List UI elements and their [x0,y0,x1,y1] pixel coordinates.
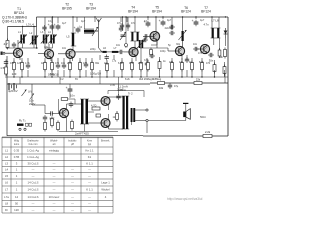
resistor R26 [57,121,60,132]
label R6 value [50,72,55,76]
wire rod feed [84,17,86,29]
svg-text:L7 L8: L7 L8 [211,19,219,23]
transistor T2 [44,49,53,58]
svg-text:4µ7: 4µ7 [62,22,67,25]
antenna mast [96,18,101,25]
resistor R3 [13,61,16,72]
svg-text:—: — [32,168,35,172]
series capacitor C10 [118,50,124,54]
svg-text:+: + [54,23,56,27]
label L1 L2 [26,23,34,27]
wire trimmer column a [122,17,124,31]
wire T3 collector [72,46,74,50]
wire antenna to choke line [99,48,102,52]
wire top supply rail [37,16,229,18]
svg-text:470: 470 [206,62,211,65]
label 100u second [48,73,59,77]
capacitor C11 shunt [105,55,109,61]
wire T9 collector [108,97,110,98]
transistor T10 output [101,119,110,128]
svg-text:—: — [88,195,91,199]
wire AF supply line [108,90,144,92]
resistor R14 [158,60,161,71]
label R2 value [0,66,4,70]
svg-text:NTC: NTC [50,118,55,121]
wire AF base line [55,113,60,115]
svg-text:1 CuL-Ag: 1 CuL-Ag [27,149,39,153]
svg-text:BF195: BF195 [62,7,72,11]
svg-text:4.7Ω: 4.7Ω [91,105,96,108]
terminal node C [146,119,148,121]
svg-text:47n: 47n [10,62,15,65]
capacitor C1 [4,60,8,66]
svg-text:0.55: 0.55 [14,155,20,159]
resistor R34 bias [61,98,67,101]
wire to speaker [148,120,186,122]
wire Tr5 sec top [135,109,146,111]
label R value 39k [139,77,162,81]
svg-text:L7: L7 [5,188,9,192]
svg-text:Tr 2: Tr 2 [128,92,133,96]
wire vertical node A [36,27,38,49]
svg-text:—: — [71,195,74,199]
svg-text:art: art [53,143,56,146]
svg-text:—: — [71,174,74,178]
capacitor C36 feed [168,83,172,89]
svg-text:—: — [88,168,91,172]
wire T3 emitter [72,58,74,61]
svg-text:turns: turns [14,143,20,146]
wire base coupling T2-T3 [58,53,66,55]
electrolytic C15 [144,20,151,27]
wire stage1 bias line [7,47,38,49]
svg-text:6.8k: 6.8k [118,62,123,65]
wire antenna down [98,25,100,48]
svg-text:—: — [53,188,56,192]
capacitor C19 [169,31,175,35]
wire T8 collector [66,104,68,110]
svg-text:—: — [88,181,91,185]
label R23 value [196,78,201,82]
wire L2 top [33,27,35,36]
svg-text:Rₐ Tₐ: Rₐ Tₐ [19,118,26,122]
svg-text:K1: K1 [88,155,92,159]
svg-text:—: — [88,208,91,212]
wire T2 emitter [50,58,52,61]
wire T6 emitter [181,55,183,60]
capacitor C24 bypass [119,26,123,32]
svg-text:+: + [192,19,194,23]
svg-text:BF124: BF124 [201,10,211,14]
wire detector to AGC [224,74,226,84]
svg-text:470: 470 [129,62,134,65]
wire osc emitter path [156,40,158,45]
input jack J1 [1,52,14,55]
electrolytic C6 [74,26,81,33]
label transistor T7 type [201,6,211,14]
diode D1 [224,28,228,38]
wire feedback link [167,48,169,51]
wire L3 bottom [44,44,46,50]
resistor R9 [91,61,94,72]
label L5 [67,35,70,39]
svg-text:BF124: BF124 [181,10,191,14]
label electrolytic 100u [90,72,101,76]
wire stage2 link [45,47,53,49]
wire Tr3 sec down [219,38,221,50]
svg-text:8.2k: 8.2k [199,61,204,64]
svg-text:47µ: 47µ [174,85,179,88]
ferrite rod coil [84,29,94,33]
wire T2 collector [48,44,50,49]
resistor R21 [223,65,226,76]
label 4x100 [165,27,172,30]
wire emitters join [116,111,118,113]
svg-text:—: — [53,168,56,172]
svg-text:8.2k: 8.2k [125,78,130,81]
wire outputs to transformer [109,96,124,98]
svg-text:L6: L6 [5,181,9,185]
svg-text:Bemerk.: Bemerk. [101,140,110,143]
capacitor C12 [120,23,124,29]
label Tr2 [128,92,133,96]
resistor R7 [69,61,72,72]
terminal node B [146,109,148,111]
resistor R20 [213,63,216,74]
wire AF supply left drop [107,91,109,95]
svg-text:Lg: Lg [79,25,82,29]
wire AF input [32,104,45,106]
resistor R17 [191,61,194,72]
wire T4 collector [134,41,136,48]
svg-text:10n: 10n [70,94,75,98]
capacitor C33 bias [12,42,16,48]
wire T9 emitter [108,105,110,111]
svg-text:30 CuLS: 30 CuLS [28,162,39,166]
volume potentiometer P1 [22,90,35,100]
coil L9 osc [137,40,145,49]
svg-text:3k4 26Meg 0.5Meg: 3k4 26Meg 0.5Meg [139,77,162,81]
wire volume feed [31,84,33,105]
wire bias annotation line [118,84,120,95]
svg-text:50Ω: 50Ω [200,115,206,119]
svg-text:einlagig: einlagig [49,149,59,153]
wire AF coupling vertical [44,105,46,114]
trimmer coil L6 arrow [179,30,187,41]
svg-text:L5: L5 [5,174,9,178]
capacitor C34 box [96,114,101,117]
transistor T5 oscillator [150,32,160,42]
transistor T8 driver [59,108,68,117]
svg-text:L3 L4: L3 L4 [26,23,34,27]
resistor R22 series [158,82,165,85]
svg-text:µH: µH [71,143,74,146]
svg-text:1.5: 1.5 [0,66,4,70]
label 10n af [70,94,75,98]
capacitor C21 30n [208,53,214,57]
label R18 value [218,55,223,59]
svg-text:+: + [48,23,50,27]
wire osc emitter left [151,44,157,46]
resistor R18 [224,48,227,59]
wire T5 collector [155,17,157,32]
coil L1 tuned [18,35,26,44]
junction dot bias a [6,47,7,48]
resistor R19 [201,61,204,72]
wire test point [125,17,127,44]
transistor T1 [13,48,22,57]
resistor R31 AF [44,121,47,132]
svg-text:100µ/10: 100µ/10 [48,73,59,77]
svg-text:30p: 30p [176,43,181,46]
svg-text:—: — [71,188,74,192]
value labels scatter [10,19,211,87]
label transistor T1 type [2,7,27,24]
svg-text:L4: L4 [5,168,9,172]
wire driver bottom [83,124,85,132]
wire T7 collector [213,38,215,45]
svg-text:4µ5/6V: 4µ5/6V [8,89,18,93]
svg-text:0.35: 0.35 [110,84,115,87]
label 2x3V [29,102,36,106]
label R22 value [159,86,164,90]
wire sub rail link [36,17,38,27]
transistor T9 output [101,97,110,106]
capacitor C23 bypass [42,25,46,31]
svg-text:—: — [88,202,91,206]
svg-text:(V): (V) [28,90,32,94]
svg-text:10n: 10n [62,47,67,50]
electrolytic C4 [54,23,61,30]
svg-text:—: — [71,168,74,172]
svg-text:4µ7: 4µ7 [167,19,172,22]
wire Tr4 sec top [88,100,101,102]
wire T1 emitter down [19,57,21,60]
label transistor T6 type [181,6,191,14]
svg-text:L5: L5 [67,35,70,39]
svg-text:L1: L1 [5,149,9,153]
capacitor C2 [26,63,30,69]
junction dot bias b [36,47,37,48]
resistor R6 [51,61,54,72]
svg-text:0.35: 0.35 [14,149,20,153]
svg-text:14 CuLS: 14 CuLS [28,181,39,185]
choke L7a [112,51,119,53]
wire stage columns to top rail [45,17,226,35]
wire sec mid [88,111,94,113]
wire diode down [225,38,227,46]
trimmer capacitor CT1 [92,27,98,36]
label speaker impedance [200,115,206,119]
resistor R28 bias [116,112,119,122]
label transistor T5 type [152,6,162,14]
wire AF supply2 [69,93,71,98]
transistor T6 [175,46,184,55]
svg-text:0.1: 0.1 [48,20,52,23]
label 17u [112,60,117,63]
electrolytic C3 [48,23,55,30]
svg-text:4µ7: 4µ7 [81,20,86,23]
wire osc tank [140,48,142,58]
label cap 10n [29,99,34,103]
svg-text:BF124: BF124 [14,11,24,15]
svg-text:—: — [88,174,91,178]
wire RF ground rail [5,76,228,78]
electrolytic C17 [159,19,166,26]
wire bias drop [74,99,76,104]
svg-text:1 CuL-Ag: 1 CuL-Ag [27,155,39,159]
resistor R10 [106,62,109,73]
svg-text:6V: 6V [75,78,78,81]
label L7a [114,47,117,50]
capacitor C26 osc [142,38,148,42]
svg-text:+: + [66,86,68,90]
label bias [118,84,128,88]
svg-text:14 CuLS: 14 CuLS [28,188,39,192]
wire T7 base [196,48,200,50]
svg-text:L3: L3 [5,162,9,166]
svg-text:22k: 22k [196,78,201,82]
svg-text:—: — [71,208,74,212]
svg-text:470: 470 [83,62,88,65]
svg-text:BF194: BF194 [128,9,138,13]
capacitor C22 coupling [49,111,55,115]
wire T8 to driver transformer [67,103,82,105]
transistor T3 [66,49,75,58]
resistor R12 [131,61,134,72]
svg-text:Wickel: Wickel [101,188,110,192]
transistor T7 [200,44,209,53]
resistor R30 [147,61,150,72]
svg-text:4µ7: 4µ7 [200,19,205,22]
svg-text:+: + [74,26,76,30]
svg-text:100µ/10: 100µ/10 [90,72,101,76]
electrolytic C18 [192,19,199,26]
svg-text:10 kreuz: 10 kreuz [49,195,60,199]
label R29 value [205,130,211,134]
junction dots on ground rail [13,76,215,77]
resistor R4 [21,61,24,72]
svg-text:47n: 47n [117,22,122,25]
wire T10 collector [108,127,110,130]
label C21 value [209,59,214,63]
wire choke to cap [117,51,120,53]
svg-text:L7a: L7a [4,195,9,199]
svg-text:10n: 10n [61,62,66,65]
wire output mid tap [131,122,133,125]
resistor R5 [44,61,47,72]
svg-text:47n: 47n [131,22,136,25]
electrolytic C29 AF [66,86,73,93]
capacitor C32 osc base [143,34,149,38]
IF transformer Tr2 [130,32,139,41]
svg-text:220p: 220p [90,48,96,51]
capacitor C16 [145,61,149,67]
resistor R1 4.7k [6,39,9,50]
svg-text:L2: L2 [5,155,9,159]
wire choke gap [107,51,112,53]
terminal circles [19,128,26,130]
wire Tr4 sec bottom [88,122,101,124]
coil L2 tuned [30,36,38,45]
wire bias to supply [68,98,75,100]
label R1 value [4,42,9,46]
svg-text:2.2k: 2.2k [205,130,211,134]
wire osc feedback [140,47,168,49]
junction dots on top rail [52,16,226,17]
wire resistor columns to rails [14,55,225,77]
wire det out [195,60,197,66]
svg-text:L8: L8 [5,202,9,206]
capacitor C25 bypass [169,25,175,29]
wire T8 bias vertical [57,99,59,114]
resistor R11 [121,61,124,72]
svg-text:—: — [32,208,35,212]
wire L1 top [22,27,24,35]
resistor R32 AF [71,120,74,131]
label idle current [118,88,126,92]
svg-text:—: — [53,162,56,166]
wire L2 bottom [33,45,35,49]
capacitor C20 [185,57,189,63]
wire AF bottom rail [7,135,143,137]
speaker LS1 [183,103,190,120]
junction dots on sub rail [22,26,35,27]
resistor R35 if out [218,48,221,58]
svg-text:Lage 1: Lage 1 [101,181,110,185]
resistor R29 2.2k [203,135,212,138]
svg-text:50: 50 [15,202,19,206]
label Ra Ta [19,118,26,122]
label R25 value [50,118,55,121]
winding table text [4,140,110,212]
wire AF coupling to base [45,113,49,115]
resistor R23 series [194,82,202,85]
wire trimmer column b [127,17,129,31]
capacitor C30 AF [43,115,47,121]
label L6 [103,47,106,50]
svg-text:—: — [32,174,35,178]
label R27 value [91,105,96,108]
resistor R15 [171,61,174,72]
wire AF bottom link [142,135,144,137]
label 2.2n [117,88,124,92]
coil L5 core [71,33,76,46]
wire right edge rail [227,17,229,136]
svg-text:—: — [53,181,56,185]
svg-text:47n: 47n [198,52,203,55]
resistor R16 [181,61,184,72]
svg-text:4.7: 4.7 [4,42,9,46]
wire T5 emitter [156,40,158,48]
svg-text:CuL mm: CuL mm [29,143,38,146]
wire AF emitter line [59,131,118,133]
svg-text:2.2nF: 2.2nF [117,88,124,92]
svg-text:14 CuLS: 14 CuLS [28,195,39,199]
wire left edge [6,56,8,136]
label Lg [79,25,82,29]
svg-text:BF194: BF194 [86,7,96,11]
wire choke line left [75,51,102,53]
wire L4 bottom [52,44,54,49]
capacitor C27 [149,54,155,58]
label transistor T2 type [62,3,72,11]
label 4.7n [203,23,209,27]
wire AGC rail [7,83,150,85]
wire T5 base link [143,35,150,37]
wire base coupling T1-T2 [38,53,44,55]
resistor R27 bias [92,107,100,110]
